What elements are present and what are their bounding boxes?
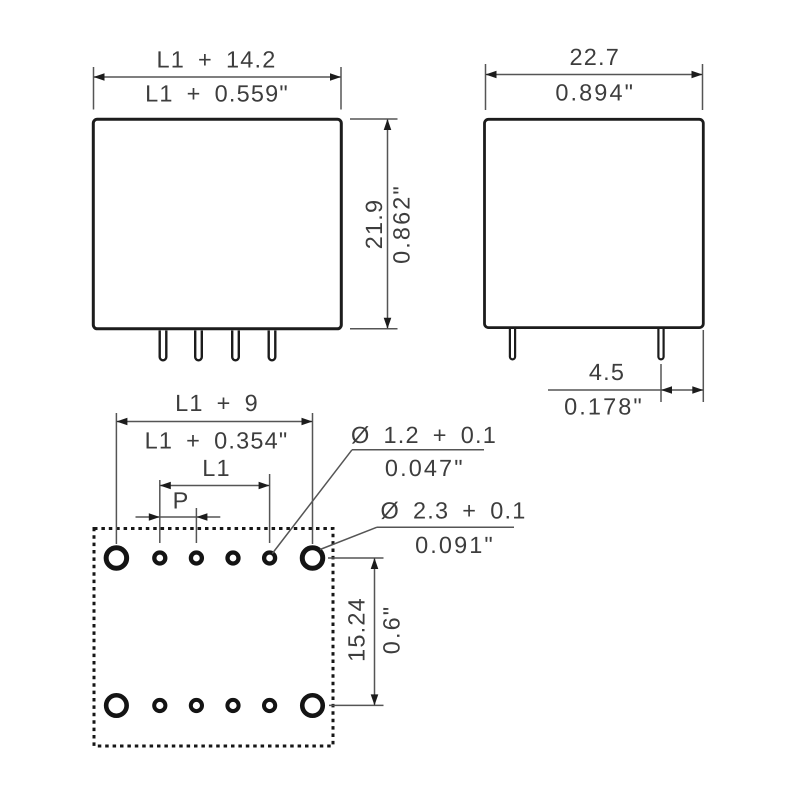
arrowhead outside-right of P pointing left (196, 513, 207, 521)
arrowhead left of L1 (160, 482, 171, 490)
svg-text:L1 + 9: L1 + 9 (175, 390, 259, 416)
svg-text:0.862": 0.862" (389, 184, 415, 264)
pin hole top 2 (191, 553, 202, 564)
mounting hole top-right (302, 548, 323, 569)
dimension line L1 (160, 485, 270, 487)
dimension line L1+9 (116, 421, 312, 423)
extension line from rear pin down (4.5 dim) (660, 364, 662, 402)
pin hole top 1 (154, 553, 165, 564)
solder pin rear (side view) (658, 329, 663, 359)
solder pin 1 (front view) (160, 331, 167, 361)
arrowhead right of L1 (259, 482, 270, 490)
extension line left of L1+9 dimension (115, 413, 117, 544)
arrowhead at pin extension pointing left (661, 386, 672, 394)
arrowhead left of L1+9 (116, 418, 127, 426)
arrowhead left of 22.7 (486, 71, 497, 79)
dimension line L1+14.2 (94, 76, 342, 78)
solder pin 4 (front view) (269, 331, 276, 361)
dimension line 4.5 with leader to left (548, 389, 703, 391)
arrowhead right of L1+9 (302, 418, 313, 426)
extension line right of P dimension (195, 508, 197, 543)
mounting hole top-left (106, 548, 127, 569)
extension line right of width dimension L1+14.2 (340, 67, 342, 110)
pin hole bottom 4 (264, 700, 275, 711)
svg-text:0.091": 0.091" (415, 532, 495, 558)
underline of diameter 1.2 label (352, 449, 484, 451)
arrowhead left of L1+14.2 (94, 73, 105, 81)
front view housing outline (93, 119, 341, 328)
extension line top of 15.24 dimension (328, 557, 384, 559)
solder pin front (side view) (510, 329, 515, 359)
svg-text:15.24: 15.24 (344, 597, 370, 662)
arrowhead bottom of 15.24 (371, 694, 379, 705)
svg-text:0.894": 0.894" (555, 79, 635, 105)
PCB footprint dashed outline (94, 529, 333, 747)
leader from label to mounting hole top-right (320, 527, 377, 549)
svg-text:0.6": 0.6" (379, 605, 405, 654)
arrowhead top of 21.9 (384, 119, 392, 130)
svg-text:L1 + 0.354": L1 + 0.354" (145, 428, 289, 454)
svg-text:22.7: 22.7 (570, 44, 621, 70)
underline of diameter 2.3 label (377, 526, 514, 528)
dimension line P with outside leaders (136, 516, 221, 518)
dimension line 15.24 vertical (374, 558, 376, 705)
leader from label to pin hole top 4 (272, 450, 352, 554)
extension line right of L1+9 dimension (312, 413, 314, 544)
svg-text:0.047": 0.047" (385, 455, 465, 481)
extension line left of width dimension L1+14.2 (93, 67, 95, 110)
svg-text:L1: L1 (202, 455, 231, 481)
svg-text:0.178": 0.178" (564, 394, 644, 420)
extension line bottom of 15.24 dimension (329, 704, 384, 706)
arrowhead bottom of 21.9 (384, 318, 392, 329)
arrowhead right of L1+14.2 (330, 73, 341, 81)
svg-text:21.9: 21.9 (361, 199, 387, 250)
pin hole top 3 (228, 553, 239, 564)
svg-text:Ø 1.2 + 0.1: Ø 1.2 + 0.1 (351, 422, 497, 448)
extension line right of width dimension 22.7 (702, 64, 704, 110)
dimension line 21.9 vertical (387, 119, 389, 329)
mounting hole bottom-right (302, 695, 323, 716)
extension line left of width dimension 22.7 (485, 64, 487, 110)
svg-text:4.5: 4.5 (589, 359, 625, 385)
side view housing outline (485, 119, 704, 327)
extension line from housing right edge down (4.5 dim) (702, 330, 704, 402)
extension line bottom of height dimension 21.9 (350, 328, 398, 330)
mounting hole bottom-left (106, 695, 127, 716)
arrowhead right of 22.7 (692, 71, 703, 79)
pin hole bottom 3 (227, 700, 238, 711)
svg-text:Ø 2.3 + 0.1: Ø 2.3 + 0.1 (380, 498, 526, 524)
solder pin 3 (front view) (232, 331, 239, 361)
svg-text:L1 + 14.2: L1 + 14.2 (156, 47, 276, 73)
extension line left of L1 dimension (159, 480, 161, 543)
pin hole bottom 1 (154, 700, 165, 711)
extension line top of height dimension 21.9 (350, 118, 398, 120)
pin hole bottom 2 (191, 700, 202, 711)
solder pin 2 (front view) (195, 331, 202, 361)
svg-text:P: P (173, 488, 190, 514)
pin hole top 4 (264, 553, 275, 564)
dimension line 22.7 (486, 74, 703, 76)
extension line right of L1 dimension (269, 474, 271, 543)
arrowhead at housing edge pointing right (692, 386, 703, 394)
arrowhead top of 15.24 (371, 558, 379, 569)
arrowhead outside-left of P pointing right (149, 513, 160, 521)
svg-text:L1 + 0.559": L1 + 0.559" (145, 81, 289, 107)
